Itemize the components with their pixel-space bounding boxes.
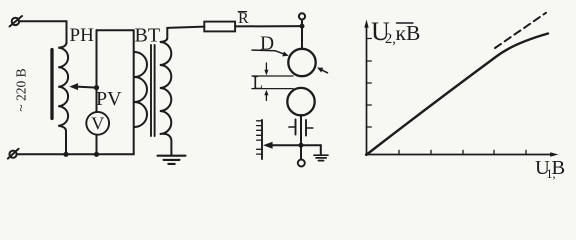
svg-text:~ 220 В: ~ 220 В — [14, 68, 29, 111]
svg-text:2,: 2, — [385, 31, 396, 47]
svg-text:BT: BT — [135, 25, 161, 47]
svg-text:В: В — [552, 157, 566, 179]
svg-text:V: V — [91, 114, 104, 134]
svg-text:D: D — [260, 33, 274, 54]
svg-text:PV: PV — [96, 88, 122, 110]
svg-text:L: L — [253, 72, 264, 92]
svg-text:кВ: кВ — [396, 21, 421, 45]
svg-text:PH: PH — [70, 25, 95, 46]
svg-text:R: R — [238, 10, 249, 27]
